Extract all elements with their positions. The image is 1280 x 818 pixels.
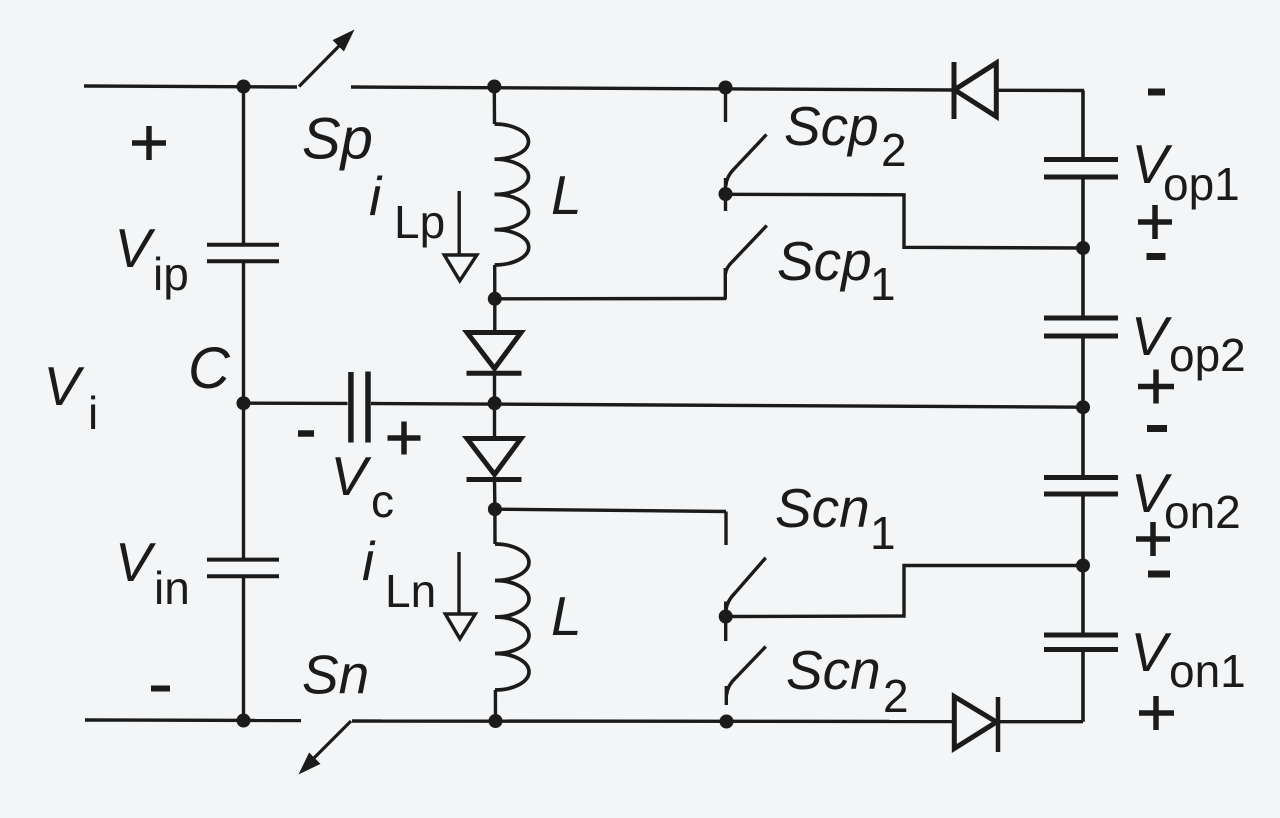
svg-text:Scp: Scp <box>784 95 879 157</box>
svg-text:Sn: Sn <box>302 644 369 706</box>
svg-text:c: c <box>371 475 394 527</box>
svg-text:op2: op2 <box>1169 329 1246 381</box>
svg-text:V: V <box>1131 621 1172 683</box>
svg-text:1: 1 <box>870 507 896 559</box>
svg-text:2: 2 <box>883 670 909 722</box>
svg-text:on2: on2 <box>1164 486 1241 538</box>
svg-text:V: V <box>331 445 372 507</box>
svg-text:on1: on1 <box>1169 645 1246 697</box>
svg-text:Ln: Ln <box>385 565 436 617</box>
svg-text:2: 2 <box>881 124 907 176</box>
svg-text:Scn: Scn <box>775 477 870 539</box>
svg-text:ip: ip <box>153 248 189 300</box>
svg-text:Sp: Sp <box>302 107 373 172</box>
svg-text:op1: op1 <box>1163 158 1240 210</box>
svg-text:in: in <box>154 562 190 614</box>
svg-text:V: V <box>44 355 85 417</box>
svg-text:Scn: Scn <box>786 639 881 701</box>
svg-text:Scp: Scp <box>777 230 872 292</box>
svg-text:C: C <box>188 336 231 401</box>
svg-text:L: L <box>551 164 582 226</box>
svg-text:i: i <box>88 387 98 439</box>
svg-text:L: L <box>551 585 582 647</box>
svg-text:V: V <box>115 531 156 593</box>
svg-text:i: i <box>369 165 383 227</box>
svg-text:V: V <box>115 217 156 279</box>
svg-text:1: 1 <box>870 258 896 310</box>
svg-text:Lp: Lp <box>394 196 445 248</box>
svg-text:V: V <box>1131 305 1172 367</box>
svg-text:i: i <box>362 530 376 592</box>
